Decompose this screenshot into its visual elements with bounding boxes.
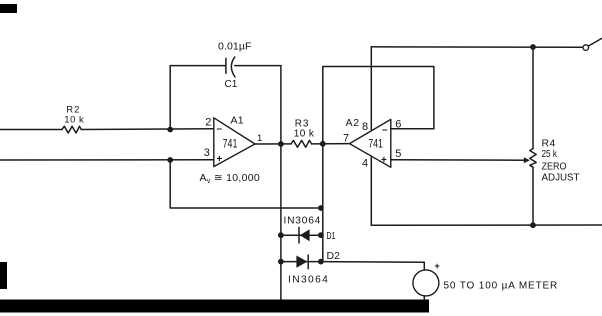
wire top rail to switch [371, 46, 583, 49]
svg-text:5: 5 [395, 148, 401, 160]
wire A2 pin 5 to R4 wiper [391, 159, 526, 161]
resistor R2 [62, 126, 81, 133]
wire A2 pin 8 up to top rail [370, 47, 372, 131]
svg-text:0.01µF: 0.01µF [218, 40, 252, 52]
node D1 right [318, 232, 324, 238]
wire R3 to A2 input node [312, 143, 350, 145]
svg-text:A2: A2 [346, 117, 360, 129]
diode D1 cathode bar [298, 227, 300, 243]
node bottom rail R4 [530, 222, 536, 228]
wire A2 pin 4 down to bottom rail [370, 156, 372, 225]
node pin3 junction [167, 157, 173, 163]
diode D1 wire [281, 234, 321, 236]
svg-text:D1: D1 [327, 230, 336, 242]
switch S1 arm [589, 39, 602, 47]
svg-text:IN3064: IN3064 [284, 215, 322, 226]
svg-text:3: 3 [204, 147, 210, 159]
node A1 output junction [278, 141, 284, 147]
wire A1 output to R3 [255, 143, 291, 145]
svg-text:ADJUST: ADJUST [542, 172, 581, 184]
wire C1 feedback box top right [235, 65, 281, 67]
svg-text:+: + [381, 155, 387, 166]
svg-text:10 k: 10 k [294, 128, 315, 139]
svg-text:25 k: 25 k [542, 148, 558, 160]
wire C1 box right vertical down to diodes [280, 66, 282, 262]
svg-text:–: – [217, 124, 223, 135]
scan mark top-left [0, 4, 17, 13]
svg-text:10 k: 10 k [64, 114, 84, 125]
svg-text:1: 1 [257, 133, 262, 144]
node A2 input junction [320, 141, 326, 147]
svg-text:A1: A1 [231, 114, 244, 126]
op-amp A1 [214, 118, 255, 167]
svg-text:2: 2 [205, 116, 211, 128]
svg-text:D2: D2 [327, 250, 341, 262]
node D1 left [278, 232, 284, 238]
wire bottom input to A1 pin 3 [0, 159, 214, 161]
svg-text:+: + [435, 261, 440, 271]
diode D2 cathode bar [307, 255, 309, 269]
diode D1 arrow [300, 229, 310, 241]
capacitor C1 right plate [231, 57, 235, 77]
wire pin3 node down [170, 160, 321, 208]
wire meter loop bottom [281, 262, 424, 304]
svg-text:741: 741 [368, 138, 383, 150]
wire C1 feedback box left vertical [169, 66, 171, 130]
wire R4 branch vertical top [532, 47, 534, 149]
svg-text:ZERO: ZERO [542, 160, 567, 172]
svg-text:4: 4 [362, 158, 368, 170]
resistor R3 [291, 140, 312, 147]
node bottom line junction [318, 205, 324, 211]
svg-text:IN3064: IN3064 [288, 274, 329, 285]
diode D2 wire [281, 261, 321, 263]
svg-text:50 TO 100 µA METER: 50 TO 100 µA METER [444, 280, 559, 291]
wire D2 to meter top [321, 262, 424, 270]
meter M1 [413, 270, 439, 296]
svg-text:+: + [217, 154, 223, 165]
switch S1 contact [583, 45, 589, 51]
svg-text:6: 6 [395, 118, 401, 130]
capacitor C1 left plate [225, 58, 227, 73]
wire C1 feedback box top left [170, 65, 226, 67]
wire bottom rail [371, 224, 602, 226]
node D2 left [278, 259, 284, 265]
scan mark bottom bar [0, 300, 429, 313]
node pin2 junction [167, 127, 173, 133]
scan mark left edge [0, 262, 7, 289]
wire R4 branch vertical bottom [532, 167, 534, 225]
wire A2 pin 6 feedback [323, 67, 434, 262]
svg-text:C1: C1 [225, 79, 238, 90]
svg-text:741: 741 [223, 138, 238, 150]
potentiometer R4 [530, 149, 536, 168]
svg-text:7: 7 [343, 133, 349, 145]
svg-text:–: – [382, 125, 388, 136]
node top rail R4 [530, 44, 536, 50]
node D2 right [318, 259, 324, 265]
wire top input to A1 pin 2 [0, 128, 214, 131]
diode D2 arrow [296, 256, 307, 268]
svg-text:8: 8 [362, 121, 368, 133]
op-amp A2 [350, 119, 391, 167]
R4 wiper arrowhead [524, 157, 530, 163]
